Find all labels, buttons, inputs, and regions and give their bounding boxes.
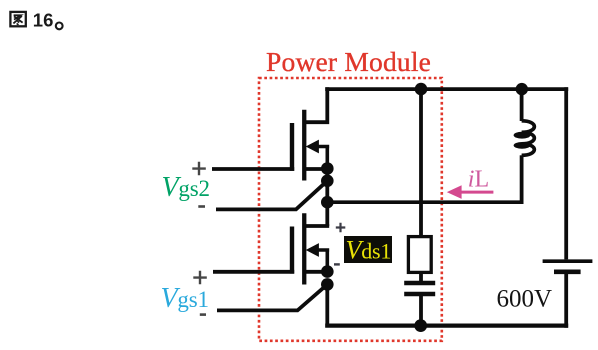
node Q1 source <box>321 265 334 278</box>
power module dashed box <box>259 78 442 341</box>
transistor Q1 (bottom MOSFET) <box>292 213 329 284</box>
battery 600V plates <box>543 259 593 263</box>
Q2 channel bar <box>302 110 306 181</box>
wire snubber branch upper <box>419 89 423 237</box>
wire Q1 source to bottom rail <box>325 284 329 327</box>
Q2 gate bar <box>290 123 294 171</box>
wire Vgs2- kelvin diagonal to Q2 source <box>216 181 327 210</box>
node Q2 kelvin <box>321 175 334 188</box>
label Vds1 plus sign <box>336 223 346 233</box>
wire inductor bottom <box>520 155 524 204</box>
svg-text:iL: iL <box>468 166 489 192</box>
label Vds1 minus sign <box>334 263 340 265</box>
node Q1 kelvin <box>321 278 334 291</box>
svg-text:Power Module: Power Module <box>266 46 431 77</box>
arrow iL (current direction) <box>447 185 494 199</box>
Q1 gate bar <box>290 227 294 274</box>
wire Vgs1+ to Q1 gate <box>213 270 294 274</box>
capacitor C plates <box>404 283 435 294</box>
figure caption 图16。 <box>10 12 25 26</box>
wire Vgs1- kelvin diagonal to Q1 source <box>217 284 327 310</box>
Q1 drain lead <box>304 224 329 228</box>
inductor L coil <box>522 121 535 156</box>
svg-text:Vgs2: Vgs2 <box>162 172 210 203</box>
node Q2 source <box>321 162 334 175</box>
wire top rail <box>325 87 568 91</box>
Q1 channel bar <box>302 213 306 284</box>
node midpoint <box>321 196 334 209</box>
node top rail / snubber branch <box>415 83 428 96</box>
resistor R (box) <box>408 237 431 273</box>
wire midpoint to Q1 drain <box>325 202 329 226</box>
label Vgs1 minus sign <box>200 313 206 316</box>
label Vgs1 plus sign <box>193 271 207 285</box>
Q2 drain lead <box>304 87 329 122</box>
transistor Q2 (top MOSFET) <box>292 87 329 180</box>
Q2 substrate arrow <box>316 147 329 169</box>
Q1 source tap <box>304 270 327 274</box>
svg-text:Vgs1: Vgs1 <box>161 283 209 314</box>
wire Q2 source to midpoint <box>325 169 329 203</box>
wire bottom rail <box>325 324 568 328</box>
label Vgs2 plus sign <box>192 162 206 176</box>
Q2 source tap <box>304 167 327 171</box>
wire capacitor to bottom rail <box>419 296 423 326</box>
node bottom rail / snubber <box>414 319 427 332</box>
wire inductor top <box>520 89 524 121</box>
wire battery branch upper <box>564 87 568 259</box>
label Vds1 <box>344 236 392 263</box>
label Vgs2 minus sign <box>198 205 205 208</box>
svg-text:600V: 600V <box>497 286 553 313</box>
svg-text:Vds1: Vds1 <box>346 236 392 265</box>
svg-text:16: 16 <box>33 10 54 31</box>
node top rail / inductor branch <box>516 83 528 95</box>
wire midpoint to inductor <box>327 200 523 204</box>
wire resistor to capacitor <box>419 272 423 281</box>
Q1 substrate arrow <box>316 250 329 272</box>
wire Vgs2+ to Q2 gate <box>212 167 294 171</box>
wire battery branch lower <box>564 274 568 328</box>
